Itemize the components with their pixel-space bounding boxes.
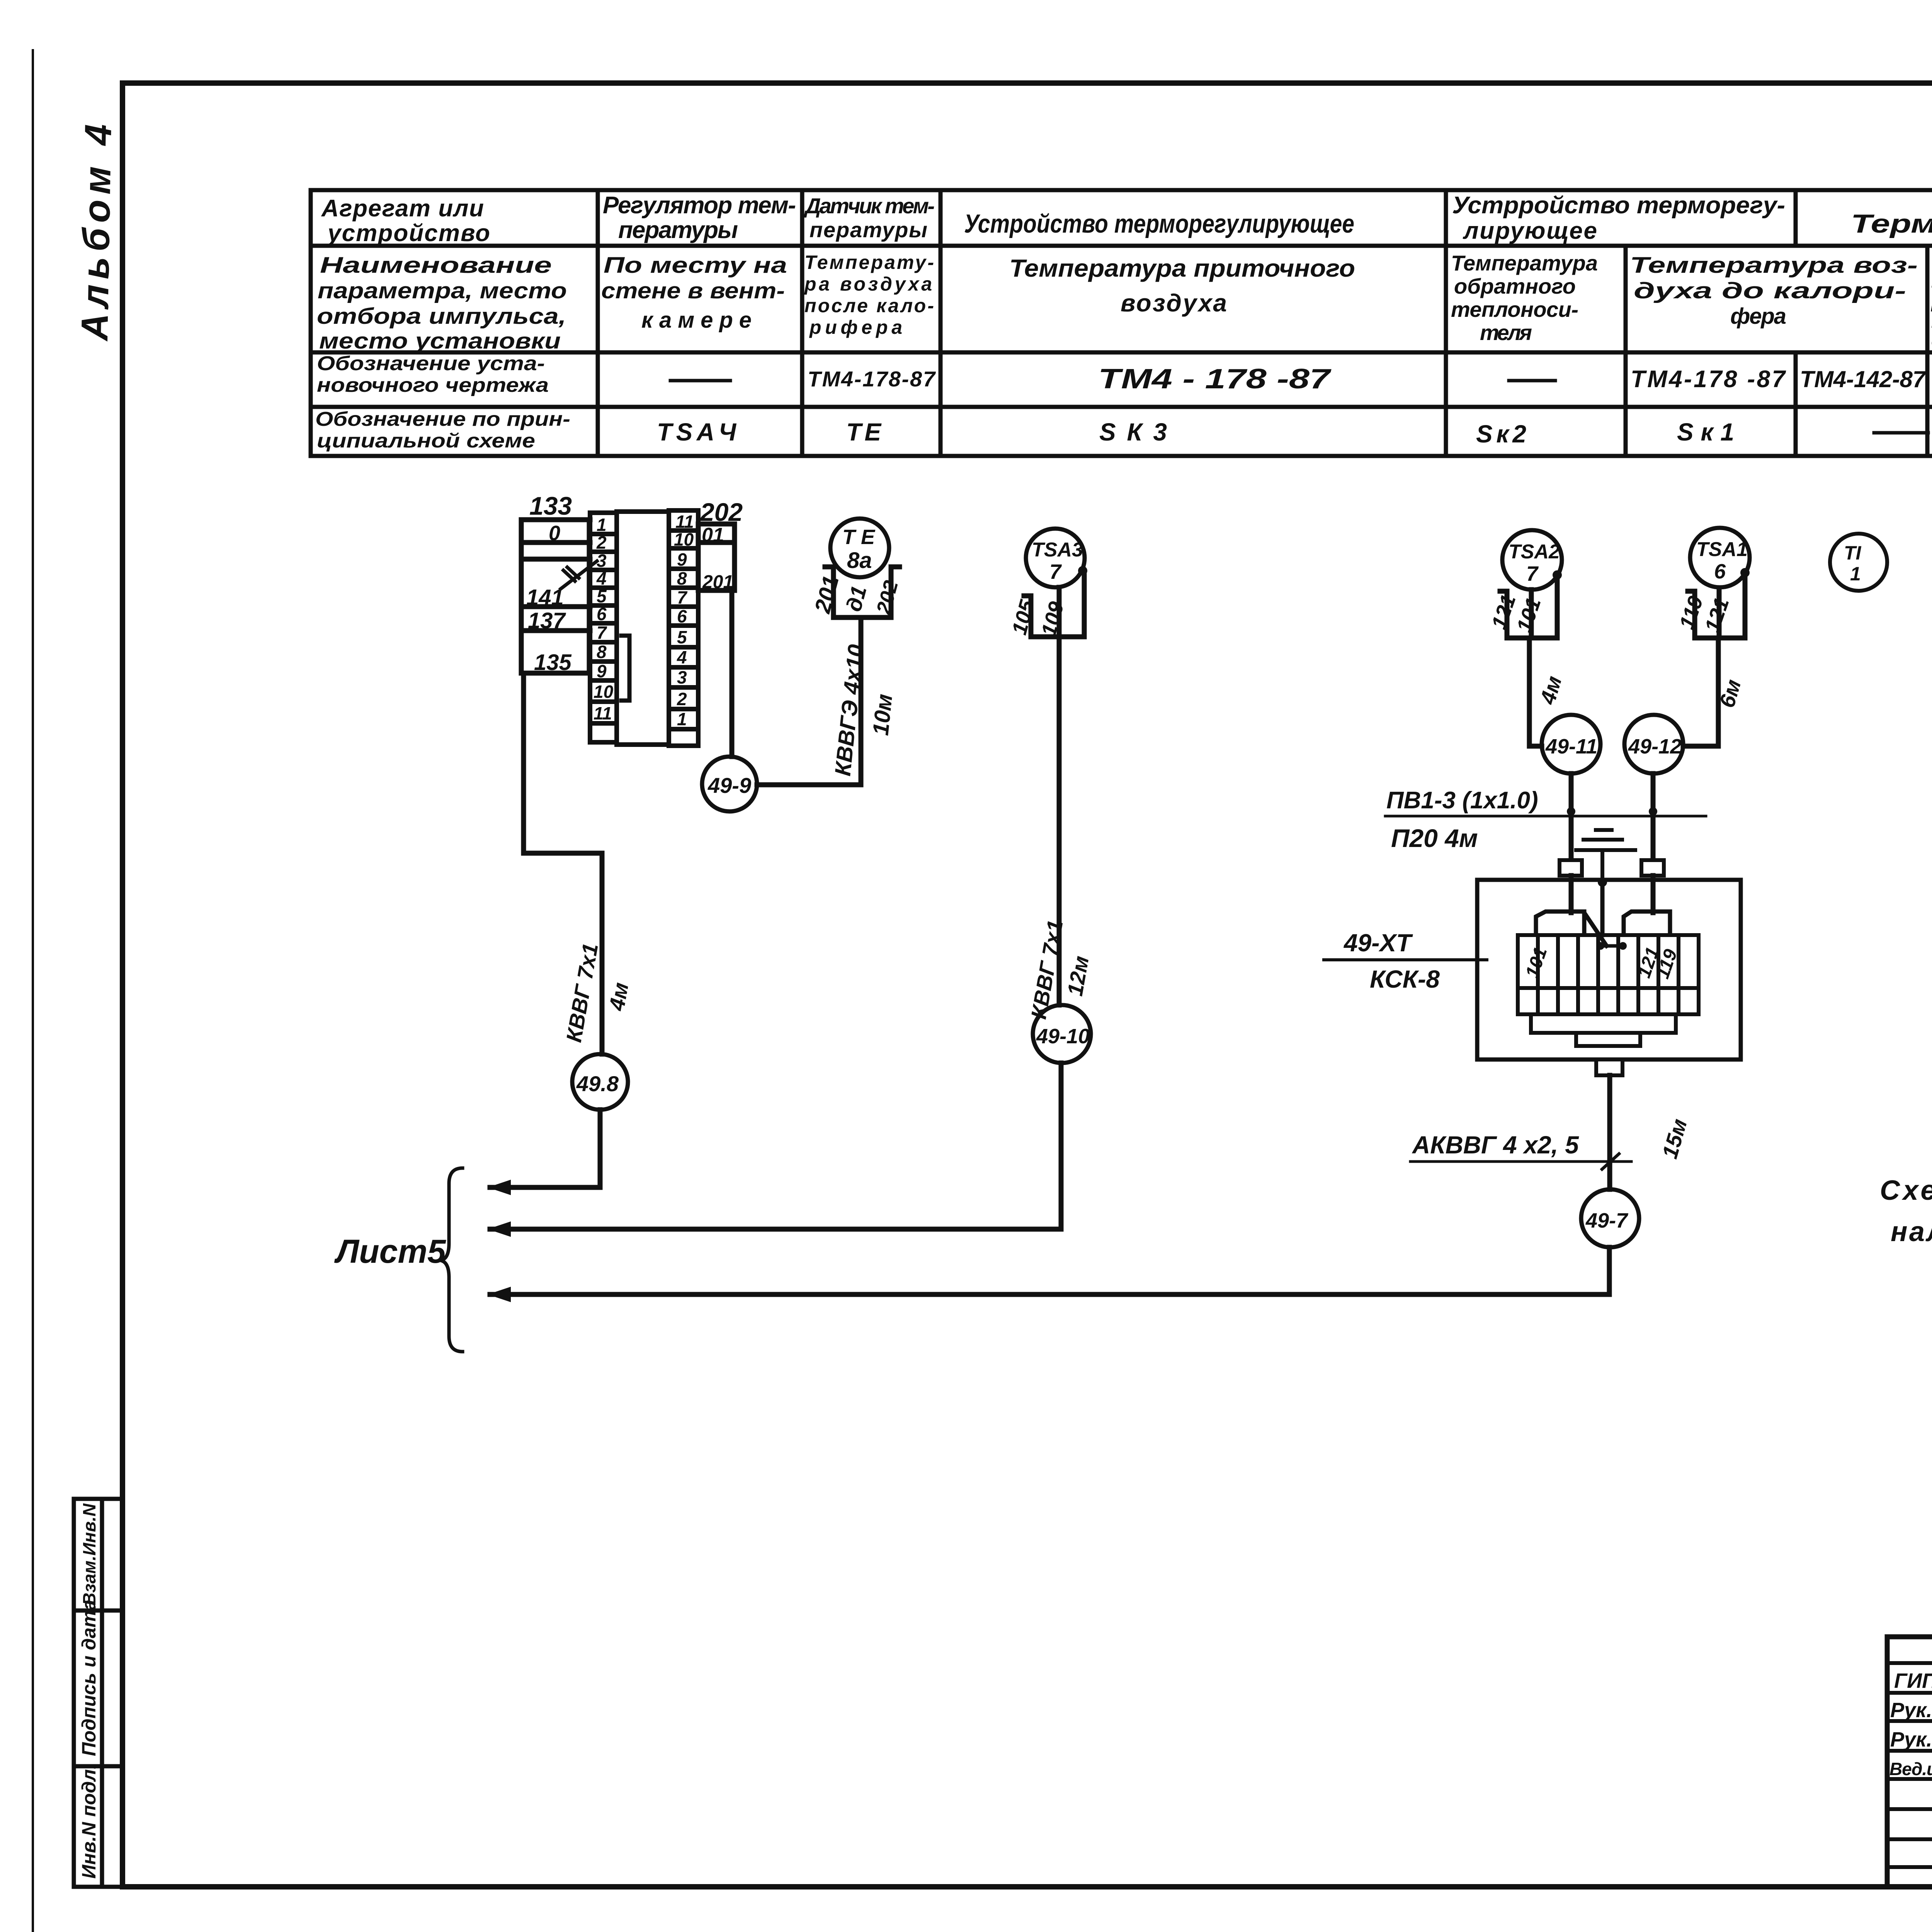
tick at wire crossing	[1602, 1154, 1619, 1169]
svg-text:стене в вент-: стене в вент-	[601, 278, 785, 303]
svg-text:9: 9	[597, 661, 607, 681]
svg-text:4: 4	[677, 647, 687, 667]
svg-text:теплоноси-: теплоноси-	[1451, 297, 1578, 321]
device circle 49-9	[702, 757, 757, 811]
svg-text:4м: 4м	[1535, 673, 1566, 707]
junction dot TSA1	[1740, 568, 1750, 577]
sheet5 wire 1	[490, 1185, 600, 1190]
svg-text:нальной, управления и регулиро: нальной, управления и регулирования лист…	[1891, 1216, 1932, 1247]
device circle 49-8	[572, 1054, 628, 1110]
terminal box д1/202 under TE	[825, 567, 900, 617]
brace for Лист5	[440, 1168, 463, 1352]
svg-text:0: 0	[549, 522, 560, 545]
terminal strip КСК	[1518, 935, 1699, 1014]
svg-text:135: 135	[534, 650, 572, 675]
svg-text:ТМ4 - 178 -87: ТМ4 - 178 -87	[1098, 364, 1332, 395]
svg-text:10: 10	[594, 682, 614, 702]
top connector square right	[1641, 860, 1664, 876]
svg-text:49.8: 49.8	[576, 1071, 619, 1096]
svg-text:SК3: SК3	[1099, 418, 1167, 446]
svg-text:Обозначение по прин-: Обозначение по прин-	[315, 408, 570, 430]
svg-text:1: 1	[677, 709, 687, 729]
svg-text:15м: 15м	[1657, 1116, 1692, 1161]
svg-text:5: 5	[677, 627, 687, 647]
svg-text:12м: 12м	[1063, 954, 1094, 998]
svg-text:8: 8	[597, 642, 607, 662]
inner connector housing left	[1536, 912, 1584, 934]
terminal box 119/121	[1688, 573, 1745, 638]
strip1 pin numbers	[594, 515, 614, 723]
svg-text:Рук.бр.: Рук.бр.	[1890, 1699, 1932, 1722]
svg-text:4м: 4м	[604, 981, 633, 1013]
svg-text:д1: д1	[841, 583, 871, 614]
svg-text:7: 7	[1526, 562, 1539, 585]
svg-text:49-10: 49-10	[1036, 1025, 1090, 1048]
svg-text:Температура: Температура	[1451, 251, 1598, 275]
paper margin thin line left	[32, 50, 34, 1932]
terminal box 01/201	[698, 524, 735, 590]
svg-text:Температура воз-: Температура воз-	[1630, 253, 1918, 278]
svg-text:Вед.инж.: Вед.инж.	[1889, 1759, 1932, 1779]
sheet5 wire 3	[490, 1292, 1609, 1297]
arrow head wire1	[488, 1180, 511, 1195]
svg-text:теля: теля	[1480, 320, 1532, 345]
switch symbol in cell	[561, 561, 597, 589]
svg-text:11: 11	[594, 703, 612, 723]
svg-text:ратного: ратного	[1930, 291, 1932, 312]
svg-text:воздуха: воздуха	[1121, 289, 1227, 317]
svg-text:П20 4м: П20 4м	[1391, 824, 1478, 852]
svg-text:9: 9	[677, 549, 687, 570]
svg-text:137: 137	[528, 608, 566, 633]
svg-text:8: 8	[677, 568, 687, 588]
svg-text:49-ХТ: 49-ХТ	[1343, 929, 1413, 957]
svg-text:TSA1: TSA1	[1696, 538, 1748, 561]
wire 49-9 to TE box	[757, 617, 861, 785]
wire box to 49-9	[730, 590, 735, 757]
svg-text:7: 7	[597, 622, 607, 643]
svg-text:место установки: место установки	[319, 328, 561, 354]
junction dot TSA3	[1078, 566, 1087, 575]
svg-text:фера: фера	[1730, 304, 1786, 329]
table header texts row1	[321, 192, 1932, 247]
wire 49-10 to line2	[1059, 1063, 1064, 1229]
table row4 обозначение по схеме	[315, 408, 1734, 452]
svg-text:3: 3	[597, 551, 607, 571]
wire TSA1 down to 49-12	[1683, 590, 1719, 746]
svg-text:7: 7	[1049, 560, 1062, 583]
svg-text:2: 2	[677, 689, 687, 709]
connector block КСК-8 outer box	[1477, 880, 1741, 1060]
svg-text:Инв.N подл.: Инв.N подл.	[78, 1764, 100, 1879]
svg-text:Рук.гр.: Рук.гр.	[1890, 1728, 1932, 1751]
lower plate 1	[1531, 1014, 1676, 1033]
svg-text:Регулятор тем-: Регулятор тем-	[603, 192, 796, 219]
wire 49-11 down	[1569, 774, 1574, 876]
svg-text:Sк2: Sк2	[1476, 420, 1526, 448]
svg-text:Датчик тем-: Датчик тем-	[804, 194, 935, 218]
svg-text:3: 3	[677, 667, 687, 687]
table row3 установочный чертеж	[317, 352, 1932, 396]
svg-text:Температу-: Температу-	[804, 252, 934, 273]
link bridge with dots	[1600, 944, 1623, 948]
wire into block right	[1651, 876, 1656, 913]
svg-text:Наименование: Наименование	[320, 253, 552, 278]
relay body middle box	[617, 512, 669, 745]
device circle 49-12	[1624, 715, 1683, 774]
svg-text:Устройство терморегулирующее: Устройство терморегулирующее	[964, 209, 1354, 238]
svg-text:TSAЧ: TSAЧ	[657, 418, 737, 446]
bottom connector square	[1596, 1060, 1622, 1075]
svg-text:камере: камере	[641, 308, 752, 333]
svg-text:новочного чертежа: новочного чертежа	[317, 374, 549, 396]
svg-text:пературы: пературы	[618, 217, 738, 243]
svg-text:Термометры технические: Термометры технические	[1851, 209, 1932, 238]
terminal box left (rows 0,141,137,135)	[521, 520, 590, 673]
svg-text:1: 1	[597, 515, 607, 535]
wire 49-12 down	[1651, 774, 1656, 876]
svg-text:10: 10	[674, 529, 694, 549]
svg-text:2: 2	[596, 532, 607, 553]
svg-text:Альбом 4: Альбом 4	[73, 124, 119, 342]
sensor circle TSA2 7	[1502, 530, 1562, 590]
sensor circle TSA3 7	[1026, 529, 1085, 587]
svg-text:49-11: 49-11	[1545, 735, 1597, 758]
svg-text:ТI: ТI	[1844, 542, 1862, 564]
svg-text:4: 4	[596, 568, 607, 588]
data table grid	[311, 190, 1932, 456]
svg-text:Температура приточного: Температура приточного	[1009, 254, 1355, 282]
svg-text:101: 101	[1522, 945, 1551, 981]
device circle 49-7	[1581, 1189, 1639, 1247]
svg-text:ципиальной схеме: ципиальной схеме	[317, 430, 535, 452]
svg-text:пературы: пературы	[810, 218, 927, 242]
jumper bracket	[621, 636, 629, 701]
arrow head wire3	[488, 1287, 511, 1302]
svg-text:параметра, место: параметра, место	[318, 278, 567, 303]
svg-text:ТМ4-142-87: ТМ4-142-87	[1800, 366, 1927, 392]
svg-text:Обозначение уста-: Обозначение уста-	[317, 352, 545, 375]
indicator circles TI 1-5	[1830, 534, 1932, 591]
wire 49-8 to line1	[598, 1110, 603, 1187]
terminal box 105/109	[1024, 576, 1084, 637]
svg-text:1: 1	[1850, 563, 1861, 585]
svg-text:ТЕ: ТЕ	[846, 418, 882, 446]
wire block to 49-7	[1607, 1075, 1612, 1189]
junction dot wire1	[1567, 807, 1575, 816]
svg-text:6: 6	[677, 606, 687, 626]
svg-text:201: 201	[810, 573, 844, 616]
svg-text:отбора импульса,: отбора импульса,	[317, 304, 566, 329]
svg-text:после кало-: после кало-	[804, 295, 934, 316]
junction dot wire2	[1649, 807, 1657, 816]
svg-text:ГИП: ГИП	[1894, 1669, 1932, 1692]
svg-text:8а: 8а	[847, 548, 872, 573]
row4 dashes	[1874, 431, 1932, 435]
svg-text:TSA3: TSA3	[1032, 539, 1083, 561]
junction dot ground/box	[1598, 878, 1607, 887]
svg-text:ПВ1-3 (1х1.0): ПВ1-3 (1х1.0)	[1386, 787, 1538, 814]
inner connector housing right	[1624, 912, 1670, 934]
svg-text:лирующее: лирующее	[1463, 218, 1597, 244]
svg-text:Устрройство терморегу-: Устрройство терморегу-	[1452, 192, 1785, 219]
wire TSA3 down to 49-10	[1057, 587, 1062, 1005]
svg-text:11: 11	[675, 512, 694, 532]
svg-text:5: 5	[597, 586, 607, 606]
svg-text:141: 141	[526, 585, 564, 610]
callout underline	[1385, 815, 1706, 818]
svg-text:49-12: 49-12	[1628, 735, 1682, 758]
svg-text:6: 6	[597, 604, 607, 624]
svg-text:ра воздуха: ра воздуха	[804, 273, 932, 295]
svg-text:По месту на: По месту на	[604, 253, 787, 278]
terminal strip 1 (pins 1-11)	[590, 513, 617, 742]
table row2 texts	[317, 251, 1932, 354]
svg-text:Подпись и дата: Подпись и дата	[78, 1600, 100, 1756]
svg-text:133: 133	[529, 492, 572, 520]
svg-text:105: 105	[1008, 597, 1039, 637]
top connector square left	[1560, 860, 1582, 876]
arrow head wire2	[488, 1221, 511, 1237]
svg-text:Sк1: Sк1	[1677, 418, 1734, 446]
svg-text:духа до калори-: духа до калори-	[1634, 278, 1906, 303]
svg-text:202: 202	[872, 578, 903, 617]
device circle 49-10	[1033, 1005, 1091, 1063]
centre wire with N link	[1584, 882, 1607, 946]
svg-text:Схема выполнена на основании: Схема выполнена на основании схем функци…	[1880, 1175, 1932, 1206]
svg-text:Агрегат или: Агрегат или	[321, 195, 484, 222]
svg-text:Лист5: Лист5	[334, 1233, 446, 1270]
stamp left rows	[1887, 1663, 1932, 1867]
svg-text:10м: 10м	[868, 693, 897, 737]
left margin column	[74, 1499, 122, 1887]
terminal strip 2 (pins 11-1)	[669, 510, 698, 746]
svg-text:Взам.Инв.N: Взам.Инв.N	[79, 1503, 99, 1605]
svg-text:49-9: 49-9	[707, 773, 751, 798]
svg-text:49-7: 49-7	[1585, 1209, 1629, 1232]
ground symbol	[1576, 830, 1635, 880]
svg-text:КВВГ 7х1: КВВГ 7х1	[561, 941, 603, 1044]
terminal box 121/101	[1500, 575, 1557, 638]
wire 133 top	[521, 517, 590, 522]
junction dot TSA2	[1553, 570, 1562, 580]
device circle 49-11	[1542, 715, 1600, 774]
svg-text:ТМ4-178-87: ТМ4-178-87	[808, 367, 936, 391]
svg-text:КСК-8: КСК-8	[1370, 965, 1440, 993]
sensor circle TSA1 6	[1690, 528, 1750, 587]
svg-text:ТМ4-178 -87: ТМ4-178 -87	[1631, 366, 1786, 393]
sheet5 wire 2	[490, 1227, 1061, 1232]
sensor circle TE 8а	[830, 519, 889, 577]
main stamp frame	[1887, 1637, 1932, 1887]
svg-text:01: 01	[702, 524, 724, 546]
wire 49-7 to line3	[1607, 1247, 1612, 1294]
lower plate 2	[1576, 1033, 1640, 1046]
svg-text:7: 7	[677, 587, 688, 607]
svg-text:рифера: рифера	[809, 316, 902, 338]
wire TSA2 down to 49-11	[1529, 590, 1542, 746]
svg-text:109: 109	[1037, 599, 1068, 639]
svg-text:обратного: обратного	[1454, 274, 1576, 298]
wire left box down	[524, 673, 602, 1054]
svg-text:устройство: устройство	[327, 220, 490, 247]
svg-text:6: 6	[1714, 560, 1726, 583]
svg-text:АКВВГ 4 х2, 5: АКВВГ 4 х2, 5	[1412, 1131, 1579, 1159]
wire into block left	[1569, 876, 1574, 913]
row3 dashes	[670, 379, 1932, 383]
strip2 pin numbers	[674, 512, 694, 729]
svg-text:TSA2: TSA2	[1509, 541, 1560, 563]
svg-text:Т Е: Т Е	[842, 526, 876, 549]
signature roles	[1889, 1669, 1932, 1779]
svg-text:201: 201	[702, 572, 733, 592]
